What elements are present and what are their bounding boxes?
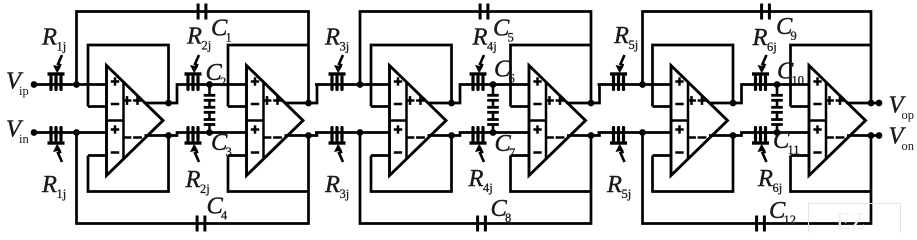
wire U2 upper feedback [228,45,309,107]
wire U2 lower feedback [228,156,309,192]
svg-text:4j: 4j [487,39,497,53]
op-amp U4 [529,66,586,176]
node U5 lower output [730,132,737,139]
svg-text:R: R [41,24,57,51]
node stage3 chain top junction [774,81,781,88]
node Vop terminal [876,100,883,107]
wire U1 -in lower lead [88,154,107,157]
wire U5 upper feedback [653,45,734,107]
node U1 upper output [165,100,172,107]
wire U4 upper feedback [511,45,592,107]
node U6 lower output [868,132,875,139]
svg-text:R: R [613,22,629,49]
wire bottom rail stage1 input [34,131,107,134]
node stage3 bottom input junction [639,129,646,136]
wire bottom rail stage3 input [598,131,672,134]
wire top rail stage1 input [34,83,107,86]
wire U3 -in lower lead [371,154,390,157]
svg-text:12: 12 [784,213,797,227]
wire U4 lower feedback [511,156,592,192]
svg-text:R: R [472,23,488,50]
capacitor C8 [476,216,487,232]
resistor R6j (lower) [752,126,769,162]
svg-text:1j: 1j [57,187,67,201]
resistor R3j (lower) [329,126,346,162]
node U3 lower output [448,132,455,139]
wire bottom loop stage1 [77,133,309,224]
node Vin terminal [31,129,38,136]
wire U1 upper feedback [88,45,169,107]
capacitor chain C6/C7 [487,85,499,133]
svg-text:8: 8 [505,211,511,225]
node U3 upper output [448,100,455,107]
op-amp U3 [390,66,447,176]
wire U6 upper feedback [791,45,872,107]
wire bottom loop stage3 [643,133,872,224]
wire top rail stage2 input [315,83,390,86]
svg-text:2j: 2j [200,182,210,196]
node stage1 chain bottom junction [206,129,213,136]
node stage1 top input junction [73,81,80,88]
svg-text:6: 6 [509,72,515,86]
svg-text:3j: 3j [340,40,350,54]
svg-text:6j: 6j [767,40,777,54]
resistor R1j (lower) [48,126,65,162]
wire top loop stage1 [77,12,309,104]
wire U6 upper output [847,102,879,105]
wire U6 -in lower lead [791,154,810,157]
svg-text:2: 2 [220,75,226,89]
wire U5 lower feedback [653,136,734,192]
wire U3 upper feedback [371,45,452,107]
node U4 lower output [588,132,595,139]
wire bottom rail stage2 input [315,131,390,134]
svg-text:R: R [606,171,622,198]
wire U3 lower output [428,133,530,136]
svg-text:R: R [324,24,340,51]
node U5 upper output [730,100,737,107]
resistor R4j (upper) [470,55,487,91]
node stage1 bottom input junction [73,129,80,136]
svg-text:2j: 2j [202,39,212,53]
svg-text:R: R [752,24,768,51]
node stage2 chain bottom junction [490,129,497,136]
op-amp U2 [247,66,304,176]
wire U3 upper output [428,85,530,104]
wire U1 lower feedback [88,136,169,192]
resistor R2j (upper) [185,55,202,91]
svg-text:op: op [902,108,915,122]
svg-text:10: 10 [792,74,805,88]
svg-text:1: 1 [226,31,232,45]
svg-text:5: 5 [508,31,514,45]
wire U1 -in upper lead [88,105,107,108]
svg-text:R: R [185,166,201,193]
wire U6 lower output [847,134,879,137]
svg-text:5j: 5j [622,187,632,201]
op-amp U5 [671,66,728,176]
capacitor C9 [760,4,771,20]
wire top loop stage3 [643,12,872,104]
wire U1 upper output [145,85,247,104]
capacitor C1 [197,4,208,20]
wire U4 -in lower lead [511,154,530,157]
svg-text:7: 7 [509,146,515,160]
svg-text:R: R [186,23,202,50]
wire bottom loop stage2 [360,133,591,224]
resistor R2j (lower) [185,126,202,162]
capacitor C4 [196,216,207,232]
wire U4 -in upper lead [511,105,530,108]
wire U5 -in upper lead [653,105,672,108]
wire U2 -in lower lead [228,154,247,157]
wire U2 lower output [285,133,318,136]
wire U2 upper output [285,85,318,104]
op-amp U1 [107,66,164,176]
wire U2 -in upper lead [228,105,247,108]
svg-text:R: R [324,171,340,198]
node U2 lower output [305,132,312,139]
node stage2 chain top junction [490,81,497,88]
op-amp U6 [809,66,866,176]
wire U5 lower output [709,133,809,136]
svg-text:ip: ip [19,84,29,98]
resistor R1j (upper) [48,55,65,91]
svg-text:4j: 4j [483,181,493,195]
svg-text:EZ: EZ [836,209,865,233]
node stage2 bottom input junction [357,129,364,136]
resistor R5j (upper) [610,55,627,91]
wire U1 lower output [145,133,247,136]
svg-text:1j: 1j [57,40,67,54]
wire top rail stage3 input [598,83,672,86]
node stage1 chain top junction [206,81,213,88]
resistor R3j (upper) [329,55,346,91]
node stage3 top input junction [639,81,646,88]
svg-text:9: 9 [791,29,797,43]
resistor R5j (lower) [610,126,627,162]
node U2 upper output [305,100,312,107]
svg-text:5j: 5j [629,38,639,52]
capacitor C5 [479,4,490,20]
capacitor C12 [755,216,766,232]
wire U3 -in upper lead [371,105,390,108]
wire U6 lower feedback [791,156,872,192]
svg-text:R: R [757,165,773,192]
node U6 upper output [868,100,875,107]
svg-text:6j: 6j [773,181,783,195]
capacitor chain C2/C3 [204,85,216,133]
wire U3 lower feedback [371,136,452,192]
svg-text:4: 4 [221,209,228,223]
wire U5 -in lower lead [653,154,672,157]
svg-text:R: R [468,165,484,192]
svg-text:3j: 3j [340,187,350,201]
wire U6 -in upper lead [791,105,810,108]
capacitor chain C10/C11 [771,85,783,133]
svg-text:R: R [41,171,57,198]
node U1 lower output [165,132,172,139]
node Von terminal [876,132,883,139]
wire top loop stage2 [360,12,591,104]
resistor R4j (lower) [470,126,487,162]
svg-text:on: on [902,139,915,153]
node U4 upper output [588,100,595,107]
svg-text:3: 3 [226,145,232,159]
node stage3 chain bottom junction [774,129,781,136]
svg-text:in: in [19,132,29,146]
wire U5 upper output [709,85,809,104]
node Vip terminal [31,81,38,88]
node stage2 top input junction [357,81,364,88]
wire U4 upper output [567,85,600,104]
resistor R6j (upper) [752,55,769,91]
wire U4 lower output [567,133,600,136]
